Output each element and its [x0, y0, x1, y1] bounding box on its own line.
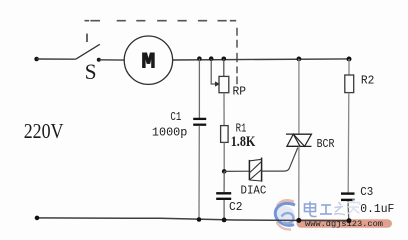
capacitor C2 — [216, 171, 231, 219]
switch S blade — [76, 44, 100, 59]
svg-text:R2: R2 — [361, 73, 375, 87]
svg-text:M: M — [141, 49, 155, 75]
svg-text:BCR: BCR — [317, 137, 335, 151]
node A (C1 branch) — [197, 56, 202, 61]
node: R2/C3 bottom junction (rail end) — [347, 218, 352, 223]
node: switch right terminal — [97, 58, 101, 62]
watermark red banner www.dgjs123.com — [297, 219, 393, 229]
potentiometer RP — [219, 59, 229, 126]
svg-text:C3: C3 — [360, 185, 373, 199]
resistor R1 — [221, 126, 229, 172]
svg-text:DIAC: DIAC — [241, 183, 267, 197]
dashed mechanical-link line (vertical, to RP) — [236, 28, 238, 84]
svg-text:C2: C2 — [229, 200, 243, 214]
wire: switch to motor — [99, 59, 125, 61]
node: BCR bottom junction — [296, 218, 301, 223]
node B (RP wiper branch) — [209, 56, 214, 61]
svg-text:220V: 220V — [24, 119, 64, 143]
node E (R2 branch, rail end) — [347, 57, 352, 62]
node: C1 bottom junction — [197, 217, 202, 222]
node: left source terminal (top) — [34, 57, 39, 62]
capacitor C3 — [341, 194, 355, 221]
dashed mechanical-link line (top horizontal) — [85, 20, 237, 22]
wire: node F to DIAC — [224, 170, 249, 172]
svg-text:0.1uF: 0.1uF — [360, 202, 394, 216]
node: C2 bottom junction — [222, 218, 227, 223]
svg-text:RP: RP — [233, 85, 247, 99]
node: left source terminal (bottom) — [35, 216, 40, 221]
capacitor C1 — [193, 59, 206, 220]
wire: top rail, motor to right end — [173, 59, 349, 60]
bottom rail wire — [37, 218, 349, 221]
watermark character dian — [305, 202, 317, 217]
DIAC — [249, 158, 261, 182]
node D (BCR branch) — [297, 57, 302, 62]
svg-text:1000p: 1000p — [152, 125, 188, 139]
wire: DIAC to BCR gate — [262, 148, 298, 172]
motor M — [124, 36, 172, 84]
watermark character jia — [348, 200, 360, 214]
svg-text:C1: C1 — [170, 111, 181, 124]
svg-text:S: S — [85, 59, 97, 84]
RP wiper arrow — [211, 59, 220, 87]
triac BCR — [286, 59, 312, 221]
watermark logo swirl — [275, 200, 296, 229]
node F (DIAC / C2 junction) — [222, 169, 227, 174]
svg-text:1.8K: 1.8K — [231, 134, 256, 150]
node C (RP branch) — [222, 57, 227, 62]
switch actuator tick — [86, 34, 88, 42]
wire: top rail from source to switch — [37, 58, 76, 60]
resistor R2 — [345, 59, 354, 193]
watermark character gong — [320, 205, 332, 214]
watermark character zhi — [334, 202, 345, 215]
